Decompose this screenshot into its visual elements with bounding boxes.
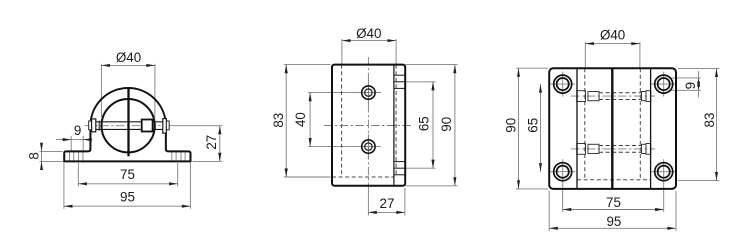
dim 8 extension lines (base height)	[40, 150, 63, 152]
dim 27 dimension line (side)	[368, 211, 405, 213]
split line (front view, vertical bold)	[127, 87, 129, 156]
centerline vertical (side view)	[367, 57, 369, 191]
screw M-top (side view)	[362, 86, 375, 99]
svg-text:8: 8	[26, 152, 41, 159]
dim 83 extension lines (side)	[284, 64, 331, 66]
svg-text:75: 75	[606, 195, 621, 210]
hidden clamp screw lower (top view)	[571, 144, 655, 155]
dim 83 dimension line (top view)	[716, 68, 718, 180]
clamp body outline (front view)	[90, 88, 165, 126]
dim 75 dimension line (front)	[78, 183, 177, 185]
dim 40 dimension line (side)	[309, 93, 311, 147]
svg-text:65: 65	[526, 118, 541, 133]
dim 27 dimension line (front right)	[219, 126, 221, 162]
dim 90 extension lines (side)	[405, 64, 457, 66]
dim 65 extension lines (side)	[405, 81, 435, 83]
svg-text:83: 83	[271, 113, 286, 128]
clamp screw left head (front)	[89, 121, 92, 130]
dim 40 extension lines (side)	[308, 92, 357, 94]
svg-text:Ø40: Ø40	[116, 50, 141, 65]
bolt hole top-right (counterbore)	[655, 75, 673, 93]
split line (top view, vertical bold)	[611, 68, 613, 189]
dim 27 extension line bottom	[193, 160, 223, 162]
hidden flange plane line (side)	[332, 176, 394, 178]
bolt hole bottom-left (counterbore)	[554, 163, 572, 181]
dim 9 slot width extension lines	[70, 136, 72, 152]
mounting slot hidden lines left flange	[69, 151, 71, 161]
dim 9 dimension line with outside arrows	[56, 139, 91, 141]
screw hole crosshair bottom (side)	[356, 146, 381, 148]
clamp screw shaft (front)	[96, 121, 163, 123]
screw M-bottom (side view)	[362, 140, 375, 153]
svg-text:Ø40: Ø40	[600, 28, 625, 43]
centerline horizontal (side view)	[324, 125, 412, 127]
svg-text:9: 9	[683, 82, 698, 89]
svg-text:Ø40: Ø40	[356, 26, 381, 41]
clamp screw right washer (front)	[163, 119, 167, 134]
hidden flange plane (top view)	[577, 179, 651, 181]
svg-text:65: 65	[416, 116, 431, 131]
dim 65 dimension line (top view)	[540, 84, 542, 172]
body outline (side view)	[332, 65, 405, 186]
svg-text:27: 27	[380, 196, 395, 211]
dim 95 extension lines (front)	[63, 163, 65, 209]
svg-text:83: 83	[702, 113, 717, 128]
dim 75 dimension line (top view)	[563, 209, 664, 211]
clamp nut block (front)	[142, 120, 153, 132]
dim 27 extension line (side right)	[404, 188, 406, 216]
bore circle Ø40 (front)	[101, 99, 154, 152]
dim Ø40 (front) dimension line	[101, 64, 154, 66]
svg-text:9: 9	[74, 123, 81, 138]
boss transition lines top (side)	[394, 74, 405, 76]
dim 75 extension lines (front)	[77, 163, 79, 186]
dim 65 dimension line (side)	[432, 82, 434, 168]
screw hole crosshair top (side)	[356, 92, 381, 94]
bolt hole top-left (counterbore)	[554, 75, 572, 93]
dim Ø40 extension lines (top)	[584, 42, 586, 68]
svg-text:27: 27	[204, 135, 219, 150]
dim Ø40 dimension line (top)	[585, 43, 640, 45]
dim 90 dimension line (top view)	[518, 68, 520, 189]
centerline horizontal (front view screw axis)	[85, 125, 171, 127]
mounting slot hidden lines right flange	[171, 151, 173, 161]
svg-text:95: 95	[606, 214, 621, 229]
dim Ø40 extension lines (side)	[341, 39, 343, 65]
bolt crosshairs (top view)	[550, 83, 575, 85]
boss edge left (top view)	[576, 68, 578, 189]
dim 95 dimension line (top view)	[549, 227, 676, 229]
dim 90 dimension line (side)	[454, 65, 456, 186]
dim 83 dimension line (side)	[285, 65, 287, 177]
dim 90 extension lines (top view left)	[516, 67, 548, 69]
svg-text:90: 90	[504, 118, 519, 133]
svg-text:90: 90	[439, 117, 454, 132]
body outline (top view)	[549, 68, 676, 189]
hidden bore lines (side)	[341, 65, 343, 177]
svg-text:75: 75	[120, 167, 135, 182]
hidden bore lines (top view)	[584, 68, 586, 180]
dim 8 dimension line with outside arrows	[41, 145, 43, 169]
dim 95 extension lines (top view)	[548, 191, 550, 231]
boss edge line (side view)	[393, 65, 395, 186]
dim 83 extension lines (top view right)	[678, 67, 719, 69]
dim 9 dimension line (top view)	[698, 71, 700, 98]
svg-text:95: 95	[120, 189, 135, 204]
boss transition lines bottom (side)	[394, 161, 405, 163]
bolt hole bottom-right (counterbore)	[655, 163, 673, 181]
dim 95 dimension line (front)	[64, 205, 190, 207]
dim Ø40 dimension line (side)	[342, 40, 396, 42]
dim 9 extension lines (bolt hole dia)	[670, 77, 702, 79]
svg-text:40: 40	[293, 112, 308, 127]
boss edge right (top view)	[650, 68, 652, 189]
dim Ø40 extension lines (front)	[100, 64, 102, 117]
hidden clamp screw upper (top view)	[571, 91, 655, 102]
